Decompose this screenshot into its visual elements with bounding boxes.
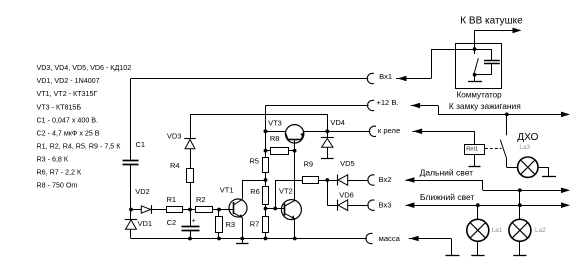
svg-text:VT3: VT3 <box>268 119 282 128</box>
svg-text:VD1, VD2 - 1N4007: VD1, VD2 - 1N4007 <box>37 77 100 85</box>
svg-text:к реле: к реле <box>378 126 400 135</box>
svg-text:R8 - 750 Om: R8 - 750 Om <box>37 182 78 190</box>
svg-text:R2: R2 <box>196 195 206 204</box>
svg-text:Вх1: Вх1 <box>379 72 392 81</box>
svg-text:Ближний свет: Ближний свет <box>420 192 475 202</box>
svg-text:La3: La3 <box>519 144 530 151</box>
svg-text:масса: масса <box>379 234 401 243</box>
svg-text:VD5: VD5 <box>340 159 355 168</box>
svg-text:R4: R4 <box>170 161 180 170</box>
svg-text:VT3 - КТ815Б: VT3 - КТ815Б <box>37 103 82 111</box>
svg-text:Коммутатор: Коммутатор <box>457 90 503 99</box>
svg-text:Дальний свет: Дальний свет <box>420 167 474 177</box>
svg-text:К ВВ катушке: К ВВ катушке <box>460 16 523 27</box>
svg-text:R6: R6 <box>250 187 260 196</box>
svg-text:VD1: VD1 <box>138 219 153 228</box>
svg-text:C1 - 0,047 x 400 В.: C1 - 0,047 x 400 В. <box>37 116 99 124</box>
svg-text:C1: C1 <box>136 140 146 149</box>
svg-text:VD4: VD4 <box>330 118 345 127</box>
svg-text:C2: C2 <box>167 218 177 227</box>
svg-text:R6, R7 - 2,2 К: R6, R7 - 2,2 К <box>37 169 82 177</box>
svg-text:VD3, VD4, VD5, VD6 - КД102: VD3, VD4, VD5, VD6 - КД102 <box>37 64 132 72</box>
svg-text:R3: R3 <box>226 220 236 229</box>
svg-text:Вх3: Вх3 <box>379 200 392 209</box>
svg-text:VD3: VD3 <box>167 132 182 141</box>
svg-text:R1, R2, R4, R5, R9 - 7,5 К: R1, R2, R4, R5, R9 - 7,5 К <box>37 142 122 150</box>
svg-text:+: + <box>192 218 196 225</box>
svg-text:La2: La2 <box>535 227 546 234</box>
svg-text:Rel1: Rel1 <box>466 147 478 153</box>
svg-text:К замку зажигания: К замку зажигания <box>449 101 521 111</box>
svg-text:R9: R9 <box>304 160 314 169</box>
svg-text:C2 - 4,7 мкФ x 25 В: C2 - 4,7 мкФ x 25 В <box>37 129 100 137</box>
svg-text:R7: R7 <box>250 220 260 229</box>
svg-text:+12 В.: +12 В. <box>376 98 398 107</box>
svg-text:Вх2: Вх2 <box>379 175 392 184</box>
svg-text:R8: R8 <box>270 134 280 143</box>
svg-text:La1: La1 <box>492 227 503 234</box>
svg-text:R1: R1 <box>167 195 177 204</box>
svg-text:VD2: VD2 <box>135 187 150 196</box>
svg-text:VT2: VT2 <box>279 187 293 196</box>
svg-text:R5: R5 <box>249 157 259 166</box>
svg-text:VT1, VT2 - КТ315Г: VT1, VT2 - КТ315Г <box>37 90 98 98</box>
svg-text:ДХО: ДХО <box>517 132 538 143</box>
svg-text:VD6: VD6 <box>339 191 354 200</box>
svg-text:R3 - 6,8 К: R3 - 6,8 К <box>37 156 69 164</box>
svg-text:VT1: VT1 <box>220 186 234 195</box>
